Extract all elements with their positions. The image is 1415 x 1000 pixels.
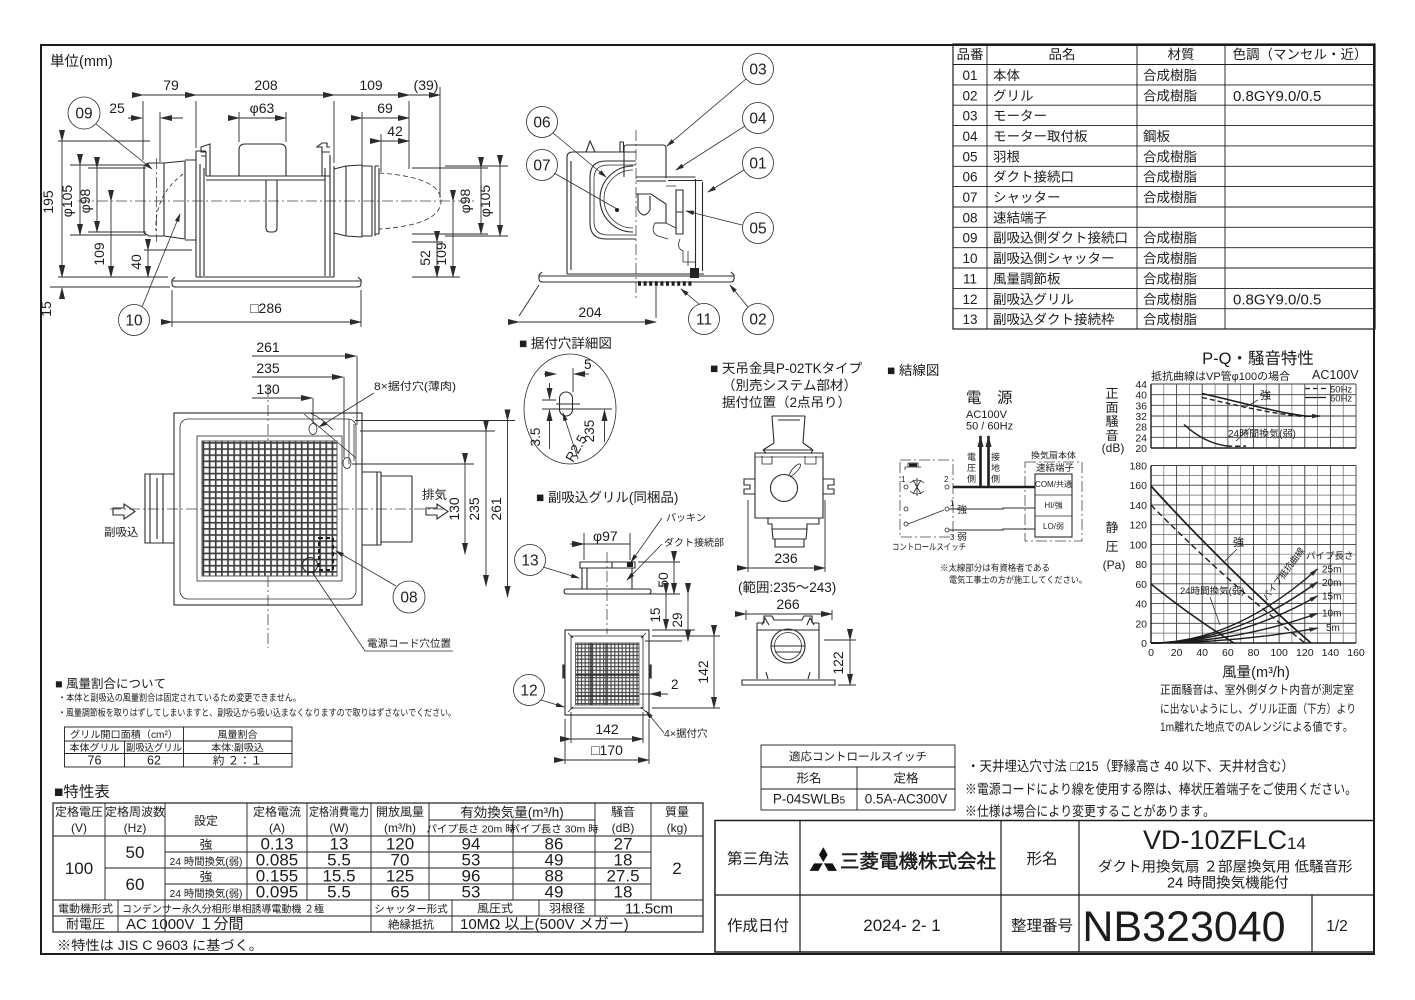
svg-text:モーター取付板: モーター取付板 [993,129,1088,144]
svg-text:11: 11 [963,271,977,286]
motor 03 [624,145,666,178]
svg-text:1: 1 [901,475,906,484]
terminal block [1035,474,1072,537]
top-left dims 261/235/130 [313,356,357,458]
svg-text:(Hz): (Hz) [124,821,147,835]
PQ strong 50Hz dashed [1151,505,1305,643]
callout 11 [689,304,720,335]
svg-text:副吸込側シャッター: 副吸込側シャッター [993,251,1115,266]
svg-text:(kg): (kg) [667,821,688,835]
switch internals [905,463,921,470]
notes right of switch table [965,758,1357,819]
main body [196,151,334,277]
svg-text:11.5cm: 11.5cm [625,901,673,918]
svg-text:排気: 排気 [422,488,447,502]
svg-text:副吸込: 副吸込 [104,526,139,539]
svg-text:形名: 形名 [1026,850,1057,868]
svg-text:※太線部分は有資格者である: ※太線部分は有資格者である [940,563,1050,573]
svg-text:AC100V: AC100V [966,409,1008,421]
svg-text:※仕様は場合により変更することがあります。: ※仕様は場合により変更することがあります。 [965,803,1215,819]
left dim φ98 [88,168,146,232]
svg-text:130: 130 [446,497,462,521]
svg-text:■特性表: ■特性表 [54,783,110,801]
wire labels vertical [967,452,1000,484]
power cord hole [303,558,318,573]
callout 12 [514,675,545,706]
bracket side view [763,416,813,453]
centerline [78,200,475,202]
svg-text:適応コントロールスイッチ: 適応コントロールスイッチ [789,751,927,764]
callout 06 [527,107,558,138]
side view: packing + duct + flange [580,562,635,568]
svg-text:抵抗曲線はVP管φ100の場合: 抵抗曲線はVP管φ100の場合 [1151,370,1290,383]
svg-text:160: 160 [1129,480,1147,492]
svg-text:羽根: 羽根 [993,149,1021,164]
centerline [635,130,637,298]
svg-text:圧: 圧 [1105,539,1118,554]
svg-text:設定: 設定 [194,814,218,828]
svg-text:142: 142 [595,721,619,737]
dim square286 [172,290,361,327]
svg-text:09: 09 [75,106,92,123]
left dim 109 [110,201,112,277]
callout 02 [743,304,774,335]
svg-text:三菱電機株式会社: 三菱電機株式会社 [840,851,996,873]
svg-text:定格電流: 定格電流 [253,805,301,819]
svg-text:側: 側 [991,474,1000,484]
svg-text:24 時間換気(弱): 24 時間換気(弱) [170,888,243,900]
svg-text:04: 04 [962,129,978,144]
svg-text:速結端子: 速結端子 [993,210,1047,225]
motor mount section [636,177,683,234]
svg-text:グリル開口面積（cm²）: グリル開口面積（cm²） [70,729,178,741]
svg-text:本体グリル: 本体グリル [70,742,120,754]
svg-text:0.8GY9.0/0.5: 0.8GY9.0/0.5 [1233,291,1321,308]
svg-text:面: 面 [1105,400,1118,415]
svg-text:騒: 騒 [1105,414,1118,429]
noise curve weak [1184,425,1227,447]
centerlines [110,386,447,648]
svg-text:5m: 5m [1326,623,1340,634]
svg-text:(範囲:235～243): (範囲:235～243) [738,580,836,595]
right dim 52 [412,241,443,243]
svg-text:120: 120 [1129,520,1147,532]
svg-text:12: 12 [520,683,537,700]
svg-text:142: 142 [695,660,711,684]
svg-text:シャッター: シャッター [993,190,1061,205]
fan scroll 06 [590,161,636,239]
svg-text:φ98: φ98 [457,188,473,213]
svg-text:25: 25 [109,100,125,116]
supply risers [979,436,982,487]
dim 15 [50,265,170,299]
terminal 08 dashed box [319,538,333,570]
svg-text:120: 120 [1296,647,1314,659]
dim square170 [565,719,649,764]
svg-text:40: 40 [1196,647,1208,659]
svg-text:□286: □286 [250,300,282,316]
svg-text:合成樹脂: 合成樹脂 [1143,149,1197,164]
dim 122 [824,640,856,685]
callout 05 [743,213,774,244]
svg-text:・本体と副吸込の風量割合は固定されているため変更できません。: ・本体と副吸込の風量割合は固定されているため変更できません。 [58,692,301,704]
dim 40 [144,249,192,251]
svg-text:13: 13 [962,312,977,327]
svg-text:（別売システム部材）: （別売システム部材） [722,378,857,393]
svg-text:品名: 品名 [1049,47,1076,62]
right dim 109 [412,276,460,278]
svg-text:03: 03 [749,62,766,79]
svg-text:235: 235 [256,360,280,376]
svg-text:鋼板: 鋼板 [1143,129,1171,144]
svg-text:正: 正 [1105,386,1118,401]
top graph grid [1164,384,1343,448]
note under graph [1160,683,1356,734]
svg-text:5: 5 [584,357,592,372]
svg-text:開放風量: 開放風量 [376,805,424,819]
svg-text:0.5A-AC300V: 0.5A-AC300V [865,792,948,807]
svg-text:(W): (W) [329,821,348,835]
svg-text:第三角法: 第三角法 [727,850,789,868]
svg-text:合成樹脂: 合成樹脂 [1143,251,1197,266]
svg-text:8×据付穴(薄肉): 8×据付穴(薄肉) [374,380,456,393]
svg-text:62: 62 [147,754,161,768]
svg-text:■ 風量割合について: ■ 風量割合について [55,677,166,691]
parts table text [957,47,1368,327]
front view [565,630,649,715]
svg-text:24時間換気(弱): 24時間換気(弱) [1228,428,1296,440]
svg-text:※電源コードにより線を使用する際は、棒状圧着端子をご使用くだ: ※電源コードにより線を使用する際は、棒状圧着端子をご使用ください。 [965,781,1357,797]
svg-text:0: 0 [1141,638,1147,650]
svg-text:65: 65 [391,883,410,902]
PQ strong 60Hz [1151,486,1311,643]
svg-text:261: 261 [488,497,504,521]
svg-text:10: 10 [962,251,977,266]
svg-text:(V): (V) [71,821,87,835]
svg-text:据付位置（2点吊り）: 据付位置（2点吊り） [722,395,851,410]
svg-text:109: 109 [433,242,449,266]
svg-text:5.5: 5.5 [327,883,351,902]
svg-text:合成樹脂: 合成樹脂 [1143,231,1197,246]
svg-text:騒音: 騒音 [611,805,635,819]
hanging tab left [201,144,210,176]
svg-text:0.095: 0.095 [256,883,299,902]
svg-text:有効換気量(m³/h): 有効換気量(m³/h) [460,805,564,820]
svg-text:15: 15 [648,607,663,622]
svg-text:60: 60 [1222,647,1234,659]
svg-text:φ105: φ105 [59,185,75,218]
svg-text:3: 3 [950,533,955,542]
right dim φ98 [412,168,488,234]
svg-text:強: 強 [957,504,967,516]
svg-text:06: 06 [533,115,550,132]
svg-text:100: 100 [1270,647,1288,659]
svg-text:2: 2 [672,859,681,878]
bottom graph grid [1151,466,1356,644]
svg-text:速結端子: 速結端子 [1036,463,1075,474]
svg-text:合成樹脂: 合成樹脂 [1143,88,1197,103]
svg-text:20: 20 [1135,443,1147,455]
svg-text:266: 266 [776,596,800,612]
pipe resistance curves 25m-5m [1151,569,1317,643]
mounting holes [309,424,317,435]
svg-text:定格周波数: 定格周波数 [105,805,165,819]
svg-text:質量: 質量 [665,805,689,819]
svg-text:40: 40 [1135,599,1147,611]
svg-text:235: 235 [582,420,597,443]
svg-text:風圧式: 風圧式 [477,902,513,916]
svg-text:10m: 10m [1322,609,1341,620]
svg-text:副吸込グリル: 副吸込グリル [126,742,182,754]
svg-text:42: 42 [387,123,403,139]
svg-text:109: 109 [91,242,107,266]
axis title dB [1102,386,1125,455]
svg-text:69: 69 [377,100,393,116]
callout 10 [119,305,150,336]
svg-text:合成樹脂: 合成樹脂 [1143,312,1197,327]
svg-text:13: 13 [521,553,538,570]
svg-text:※特性は JIS C 9603 に基づく。: ※特性は JIS C 9603 に基づく。 [57,938,263,953]
svg-text:261: 261 [256,339,280,355]
svg-text:2024- 2- 1: 2024- 2- 1 [863,916,941,935]
svg-text:定格: 定格 [893,772,919,786]
svg-text:12: 12 [962,292,977,307]
svg-text:シャッター形式: シャッター形式 [374,904,448,916]
noise curve strong 50Hz [1202,398,1306,417]
svg-text:07: 07 [533,158,550,175]
left duct [145,474,174,543]
dim 69 [361,112,363,168]
svg-text:コントロールスイッチ: コントロールスイッチ [892,542,966,552]
svg-text:24 時間換気機能付: 24 時間換気機能付 [1167,875,1289,892]
svg-text:02: 02 [749,312,766,329]
svg-text:静: 静 [1105,520,1118,535]
svg-text:60: 60 [1135,579,1147,591]
svg-text:NB323040: NB323040 [1082,903,1285,951]
svg-text:15: 15 [38,301,54,317]
mitsubishi logo [810,847,837,871]
svg-text:53: 53 [462,883,481,902]
PQ weak [1151,584,1234,643]
side hooks [744,479,834,494]
svg-text:180: 180 [1129,461,1147,473]
svg-text:本体: 本体 [993,68,1021,83]
svg-text:25m: 25m [1322,565,1341,576]
svg-text:合成樹脂: 合成樹脂 [1143,292,1197,307]
svg-text:□170: □170 [591,742,623,758]
shutter 07 dashed [379,173,441,229]
svg-text:副吸込側ダクト接続口: 副吸込側ダクト接続口 [993,231,1128,246]
svg-text:160: 160 [1347,647,1365,659]
svg-text:AC100V: AC100V [1312,368,1359,382]
dim 42 [380,134,382,172]
svg-text:24時間換気(弱): 24時間換気(弱) [1180,586,1244,597]
svg-text:236: 236 [774,550,798,566]
svg-text:圧: 圧 [967,463,976,473]
svg-text:ダクト接続部: ダクト接続部 [664,537,724,549]
svg-text:18: 18 [614,883,633,902]
svg-text:φ105: φ105 [477,185,493,218]
svg-text:色調（マンセル・近）: 色調（マンセル・近） [1233,47,1368,62]
svg-text:(dB): (dB) [1102,441,1125,455]
motor cap 03 [239,144,286,176]
svg-text:地: 地 [991,463,1000,473]
intake arrow [113,504,135,519]
svg-text:風量(m³/h): 風量(m³/h) [1222,665,1290,681]
svg-text:235: 235 [466,497,482,521]
svg-text:01: 01 [962,68,977,83]
svg-text:(dB): (dB) [612,821,635,835]
svg-text:正面騒音は、室外側ダクト内音が測定室: 正面騒音は、室外側ダクト内音が測定室 [1160,683,1354,697]
svg-text:LO/弱: LO/弱 [1043,522,1064,531]
svg-text:(A): (A) [269,821,285,835]
wires [953,486,1035,489]
svg-text:■ 天吊金具P-02TKタイプ: ■ 天吊金具P-02TKタイプ [710,361,863,376]
svg-text:P-04SWLB5: P-04SWLB5 [773,792,846,807]
scroll C ring [600,166,633,232]
svg-text:約 ２：１: 約 ２：１ [213,755,262,768]
bottom flange / grille 02 [172,277,361,287]
left dim φ105 [70,165,146,235]
terminal bracket 08 [679,239,695,266]
svg-text:20: 20 [1171,647,1183,659]
svg-text:80: 80 [1135,559,1147,571]
svg-text:100: 100 [65,859,93,878]
control switch box [900,460,953,537]
right duct [362,472,412,545]
body outer square [174,413,362,605]
svg-text:合成樹脂: 合成樹脂 [1143,68,1197,83]
svg-text:φ97: φ97 [593,528,618,544]
svg-text:定格電圧: 定格電圧 [55,805,103,819]
svg-text:整理番号: 整理番号 [1011,917,1073,935]
svg-text:HI/強: HI/強 [1044,501,1062,510]
dims 15/29 [611,594,695,641]
svg-text:140: 140 [1322,647,1340,659]
svg-text:に出ないようにし、グリル正面（下方）より: に出ないようにし、グリル正面（下方）より [1160,702,1356,716]
dim 142 right [652,636,720,708]
callout 07 [527,150,558,181]
svg-text:49: 49 [545,883,564,902]
svg-text:50 / 60Hz: 50 / 60Hz [966,421,1013,433]
svg-text:(Pa): (Pa) [1103,558,1126,572]
svg-text:11: 11 [696,312,712,329]
bottom stack [768,518,819,547]
svg-text:品番: 品番 [957,47,985,62]
body outline 01 [567,152,704,274]
svg-text:10: 10 [125,313,143,330]
svg-text:ダクト用換気扇 ２部屋換気用 低騒音形: ダクト用換気扇 ２部屋換気用 低騒音形 [1098,859,1353,876]
svg-text:強: 強 [1260,389,1271,402]
svg-text:130: 130 [256,381,280,397]
svg-text:40: 40 [128,254,144,270]
svg-text:側: 側 [967,474,976,484]
sub-intake duct 09 (left) [144,160,196,240]
callout 08 [393,581,425,613]
svg-text:0.8GY9.0/0.5: 0.8GY9.0/0.5 [1233,88,1321,105]
svg-text:強: 強 [1233,536,1244,549]
dim 236 [748,500,825,572]
svg-text:02: 02 [962,88,977,103]
svg-text:電動機形式: 電動機形式 [58,903,113,916]
svg-text:2: 2 [944,475,949,484]
dim 204 [519,285,656,318]
svg-text:04: 04 [749,111,767,128]
bracket front view [757,618,819,679]
svg-text:強: 強 [200,870,213,884]
svg-text:パイプ長さ: パイプ長さ [1306,551,1354,562]
svg-text:0: 0 [1148,647,1154,659]
callout 09 [68,97,100,129]
svg-text:208: 208 [254,77,278,93]
grille mesh [197,436,342,581]
svg-text:09: 09 [962,231,977,246]
svg-text:140: 140 [1129,500,1147,512]
svg-text:合成樹脂: 合成樹脂 [1143,190,1197,205]
svg-text:1/2: 1/2 [1326,918,1348,935]
svg-text:電: 電 [967,452,976,462]
power cord label [312,572,453,651]
svg-text:79: 79 [163,77,179,93]
right dims 130/235/261 [352,421,515,465]
svg-text:10MΩ 以上(500V メガー): 10MΩ 以上(500V メガー) [460,916,629,933]
legend 50Hz / 60Hz [1305,388,1326,390]
svg-text:50: 50 [126,843,145,862]
svg-text:■ 結線図: ■ 結線図 [887,363,939,378]
svg-text:φ98: φ98 [77,188,93,213]
svg-text:φ63: φ63 [250,100,275,116]
svg-text:2: 2 [671,677,679,692]
svg-text:08: 08 [962,210,977,225]
svg-text:204: 204 [578,304,602,320]
svg-text:08: 08 [400,590,417,607]
svg-text:100: 100 [1129,539,1147,551]
svg-text:60: 60 [126,875,145,894]
svg-text:電気工事士の方が施工してください。: 電気工事士の方が施工してください。 [949,575,1087,585]
dim 25 [128,112,183,162]
svg-text:52: 52 [417,250,433,266]
svg-text:1m離れた地点でのAレンジによる値です。: 1m離れた地点でのAレンジによる値です。 [1160,720,1353,734]
callout 01 [743,148,774,179]
svg-text:・風量調節板を取りはずしてしまいますと、副吸込から吸い込まな: ・風量調節板を取りはずしてしまいますと、副吸込から吸い込まなくなりますので取りは… [58,707,456,719]
svg-text:(m³/h): (m³/h) [384,821,416,835]
fan blade 05 dot [615,208,619,212]
dim 50 [638,562,680,594]
svg-text:風量割合: 風量割合 [218,729,258,741]
svg-text:合成樹脂: 合成樹脂 [1143,271,1197,286]
svg-text:耐電圧: 耐電圧 [66,917,105,932]
axis title Pa [1103,520,1126,572]
svg-text:P-Q・騒音特性: P-Q・騒音特性 [1202,350,1314,368]
svg-text:定格消費電力: 定格消費電力 [309,805,369,819]
svg-text:122: 122 [830,651,846,675]
svg-text:29: 29 [670,612,685,627]
svg-text:副吸込ダクト接続枠: 副吸込ダクト接続枠 [993,312,1115,327]
svg-text:07: 07 [962,190,977,205]
svg-text:グリル: グリル [993,88,1034,103]
svg-text:パッキン: パッキン [666,512,706,524]
svg-text:・天井埋込穴寸法 □215（野縁高さ 40 以下、天井材含: ・天井埋込穴寸法 □215（野縁高さ 40 以下、天井材含む） [967,758,1294,774]
svg-text:換気扇本体: 換気扇本体 [1031,451,1076,461]
svg-text:05: 05 [749,221,766,238]
svg-text:76: 76 [88,754,102,768]
svg-text:電 源: 電 源 [966,390,1013,407]
left dim 195 [58,141,168,277]
svg-text:合成樹脂: 合成樹脂 [1143,170,1197,185]
svg-text:195: 195 [40,190,56,214]
svg-text:24 時間換気(弱): 24 時間換気(弱) [170,856,243,868]
top tabs [586,141,624,152]
